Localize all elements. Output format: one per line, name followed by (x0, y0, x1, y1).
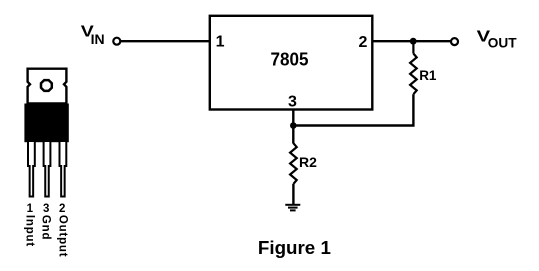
svg-text:Figure 1: Figure 1 (258, 237, 331, 258)
svg-text:OUT: OUT (488, 36, 518, 51)
wire VIN to U1 pin 1 (121, 40, 210, 42)
TO-220 mounting hole (41, 80, 52, 91)
svg-text:1: 1 (216, 34, 225, 51)
junction dot at pin 3 node (290, 122, 297, 129)
svg-text:Output: Output (56, 215, 68, 257)
terminal VIN (113, 38, 120, 45)
svg-text:2: 2 (358, 34, 367, 51)
TO-220 package tab (28, 69, 67, 104)
svg-text:2: 2 (59, 203, 65, 215)
wire node to R2 top (292, 126, 294, 144)
svg-text:Input: Input (24, 215, 36, 247)
wire U1 pin 2 to VOUT (372, 40, 450, 42)
TO-220 package body (24, 104, 68, 143)
resistor R1 (410, 54, 417, 95)
wire junction to R1 top (412, 41, 414, 53)
regulator U1 7805 box (210, 16, 372, 110)
node VIN label (81, 24, 105, 48)
wire R1 bottom to pin 3 node (293, 94, 413, 125)
svg-text:Gnd: Gnd (39, 215, 51, 240)
svg-text:3: 3 (288, 93, 297, 110)
svg-text:3: 3 (43, 203, 49, 215)
TO-220 leg pin 3 (44, 142, 51, 197)
terminal VOUT (451, 38, 458, 45)
ground symbol (285, 205, 300, 211)
TO-220 leg pin 1 (28, 142, 35, 197)
wire R2 bottom to ground (292, 184, 294, 205)
svg-text:IN: IN (91, 32, 105, 47)
svg-text:R1: R1 (419, 68, 437, 83)
svg-text:R2: R2 (299, 154, 317, 170)
junction dot at R1 top (410, 38, 417, 45)
svg-text:7805: 7805 (271, 50, 309, 70)
wire U1 pin 3 down to node (292, 110, 294, 126)
resistor R2 (290, 143, 297, 184)
TO-220 leg pin 2 (60, 142, 67, 197)
svg-text:1: 1 (27, 203, 34, 215)
node VOUT label (477, 29, 518, 51)
